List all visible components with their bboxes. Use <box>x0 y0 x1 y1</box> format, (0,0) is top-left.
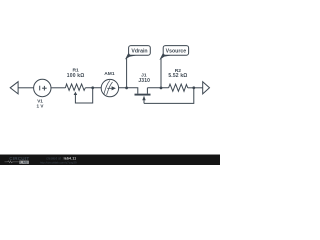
svg-text:5.52 kΩ: 5.52 kΩ <box>168 73 187 79</box>
wire (port to V1) <box>18 87 33 89</box>
svg-text:1 V: 1 V <box>37 104 45 109</box>
svg-text:http://circuitlab.com/c7cag39: http://circuitlab.com/c7cag39 <box>40 161 77 165</box>
wire (R2 to output port) <box>188 87 203 89</box>
resistor R2 <box>169 84 188 91</box>
svg-text:100 kΩ: 100 kΩ <box>67 73 85 79</box>
node junction (R1 wiper to output wire) <box>91 86 94 89</box>
node junction (Vdrain tap) <box>125 87 128 90</box>
node junction (gate feedback tap) <box>192 86 195 89</box>
net flag Vdrain pointer <box>125 53 136 60</box>
svg-text:J310: J310 <box>138 78 150 84</box>
wire (R1 wiper loop) <box>75 88 92 103</box>
net flag Vdrain stem <box>126 58 128 88</box>
wire (gate feedback loop) <box>144 88 194 104</box>
transistor J1 (N-JFET) channel bar <box>135 94 151 96</box>
net flag Vsource pointer <box>159 53 170 61</box>
svg-text:LAB: LAB <box>20 161 28 165</box>
J1 gate arrow <box>142 96 145 101</box>
node junction (Vsource tap) <box>160 87 163 90</box>
wire (AM1 to J1 drain) <box>119 88 138 94</box>
J1 source lead <box>146 88 148 94</box>
svg-text:Vsource: Vsource <box>166 49 187 55</box>
wire (V1 to R1) <box>51 87 65 89</box>
CircuitLab logo squiggle <box>5 161 19 163</box>
net flag Vsource box <box>163 46 188 56</box>
CircuitLab logo LAB box <box>19 161 28 164</box>
svg-text:AM1: AM1 <box>104 71 115 77</box>
AM1 arrowhead <box>112 86 116 90</box>
port P_in (left input terminal triangle) <box>10 82 18 94</box>
net flag Vdrain box <box>129 46 151 56</box>
R1 wiper arrow <box>74 92 78 95</box>
footer bar (CircuitLab watermark) <box>0 155 220 165</box>
wire (R1 to AM1) <box>85 87 101 89</box>
port P_out (right output terminal triangle) <box>203 82 210 94</box>
ammeter AM1 <box>101 79 118 96</box>
svg-text:Vdrain: Vdrain <box>131 49 147 55</box>
wire (J1 source to R2) <box>147 87 168 89</box>
net flag Vsource stem <box>160 58 162 88</box>
potentiometer R1 <box>65 84 85 90</box>
voltage source V1 <box>34 79 51 96</box>
J1 gate lead <box>143 100 145 104</box>
